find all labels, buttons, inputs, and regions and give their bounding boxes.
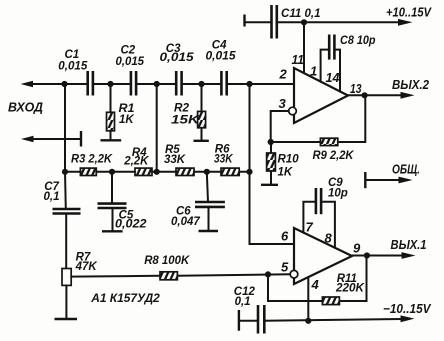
svg-text:−10..15V: −10..15V [383, 302, 432, 316]
capacitor C8 right stub (pin 14) [334, 50, 340, 92]
wire: R7 to R8 to pin 5 [71, 275, 160, 278]
wire: R10 leads [270, 142, 272, 153]
svg-text:ВХОД: ВХОД [8, 101, 43, 115]
wire: R4 to R5 [152, 171, 176, 173]
resistor R5 body [176, 168, 194, 175]
wire: R11 right lead up to output [341, 256, 367, 302]
capacitor C6 end bar [199, 230, 219, 232]
wire: pin 3 to R10 node [271, 111, 289, 142]
svg-text:0,015: 0,015 [58, 61, 88, 73]
capacitor C9 plates [315, 188, 318, 214]
node: junction pin3 / R9 / R10 [268, 139, 274, 145]
terminal bar lower input [80, 131, 82, 147]
svg-text:ВЫХ.1: ВЫХ.1 [391, 238, 427, 252]
wire: C1 to C2 [93, 83, 131, 85]
svg-text:11: 11 [292, 52, 305, 67]
resistor R4 body [135, 168, 152, 175]
capacitor C6 plates [195, 201, 225, 204]
svg-text:13: 13 [350, 81, 362, 96]
arrow -rail [401, 315, 415, 322]
node: junction R3/R4/C5 [109, 169, 115, 175]
svg-text:0,015: 0,015 [116, 56, 145, 68]
capacitor C3 plates [175, 71, 178, 96]
node: input arrow ВХОД [21, 81, 34, 87]
svg-text:0,047: 0,047 [171, 216, 200, 228]
svg-text:0,015: 0,015 [160, 52, 195, 64]
wire: pin 4 down to negative rail [307, 277, 309, 321]
arrow +rail [398, 19, 413, 26]
op-amp U1.1 triangle (bottom) [294, 228, 352, 284]
wire: input to C1 [32, 83, 88, 85]
wire: lower input line [33, 138, 82, 140]
svg-text:5: 5 [281, 260, 289, 275]
node: row junction at column A [62, 169, 68, 175]
node: output junction ВЫХ.1 [364, 252, 370, 258]
resistor R1 lead [110, 84, 112, 112]
wire: pin5 node down to R11 [268, 274, 322, 301]
node: junction R4/R5/column B [154, 169, 160, 175]
wire: C4 to op-amp pin 2 [227, 83, 294, 85]
resistor R10 body [267, 153, 276, 171]
node: junction R5/R6/C6 [204, 169, 210, 175]
svg-text:9: 9 [353, 241, 361, 256]
wire: R5 to R6 [194, 171, 221, 173]
svg-text:C1: C1 [65, 49, 80, 61]
capacitor C5 lower lead [112, 208, 114, 231]
svg-text:1K: 1K [119, 114, 134, 126]
resistor R3 body [80, 168, 96, 175]
svg-text:R8 100K: R8 100K [144, 255, 190, 267]
capacitor C4 plates [220, 71, 223, 96]
wire: column C (C4 node down to R6 node, to pin 6) [250, 84, 295, 244]
capacitor C12 plates [257, 305, 260, 334]
resistor R8 body [160, 272, 177, 280]
capacitor C5 upper lead [111, 172, 113, 204]
svg-text:+10..15V: +10..15V [386, 6, 432, 20]
wire: op-amp 2 output [352, 255, 404, 257]
capacitor C6 lower lead [208, 207, 210, 231]
inverting input circle pin 5 [290, 270, 298, 278]
capacitor C5 end bar [102, 230, 123, 232]
capacitor C8 left stub (pin 1) [321, 50, 329, 82]
wire: pin 11 from +rail to op-amp [303, 22, 305, 74]
svg-text:C2: C2 [121, 45, 136, 57]
node: junction main line / column C [246, 81, 252, 87]
resistor R1 end bar [101, 139, 122, 141]
svg-text:C8 10p: C8 10p [340, 35, 376, 47]
svg-text:0,1: 0,1 [44, 191, 60, 203]
svg-text:2,2K: 2,2K [123, 155, 149, 167]
resistor R2 lower lead [201, 128, 203, 141]
node: junction R6/column C [246, 169, 252, 175]
svg-text:0,022: 0,022 [115, 219, 147, 231]
wire: C3 to C4 [182, 83, 222, 85]
node: junction main line / R1 [107, 81, 113, 87]
resistor R2 body [198, 111, 206, 127]
svg-text:0,1: 0,1 [235, 296, 251, 308]
svg-text:R2: R2 [174, 103, 190, 115]
resistor R9 body [320, 138, 337, 145]
capacitor C5 plates [98, 202, 127, 205]
terminal ОБЩ bar [364, 172, 366, 188]
node: lower input arrow [21, 136, 34, 142]
svg-text:1K: 1K [278, 167, 293, 179]
resistor R2 end bar [194, 140, 209, 142]
svg-text:3: 3 [279, 96, 287, 111]
wire: negative rail [264, 319, 402, 321]
wire: +rail [277, 21, 402, 23]
capacitor C6 upper lead [207, 172, 208, 202]
svg-text:R3 2,2K: R3 2,2K [71, 154, 113, 166]
inverting input circle pin 3 [289, 107, 297, 115]
resistor R2 lead [201, 84, 203, 111]
ground bar under R7 [55, 318, 78, 320]
wire: op-amp 1 output [348, 94, 403, 96]
capacitor C7 plates [53, 208, 81, 211]
wire: +rail left stub terminal bar [243, 15, 245, 27]
capacitor C7 upper lead continues column A [64, 172, 67, 209]
node: output junction ВЫХ.2 [362, 92, 368, 98]
svg-text:8: 8 [325, 231, 333, 246]
wire: C2 to C3 [136, 83, 176, 85]
wire: R7 to ground [65, 285, 67, 318]
svg-text:47K: 47K [75, 261, 98, 273]
svg-text:C11 0,1: C11 0,1 [281, 8, 321, 20]
node: junction pin 4 / negative rail [305, 318, 311, 324]
op-amp U1.2 triangle (top) [294, 68, 348, 123]
wire: R9 right lead up to output [338, 95, 366, 142]
svg-text:2: 2 [279, 67, 288, 82]
resistor R1 lower lead [110, 131, 112, 140]
resistor R1 body [107, 112, 115, 131]
node: junction main line / R2 [198, 81, 204, 87]
svg-text:R10: R10 [278, 153, 300, 165]
ground bar under R10 [261, 184, 278, 186]
svg-text:10p: 10p [328, 188, 348, 200]
svg-text:1: 1 [310, 64, 317, 79]
svg-text:14: 14 [326, 70, 341, 85]
node A: junction input / shield column [61, 81, 67, 87]
svg-text:6: 6 [281, 229, 289, 244]
wire: shield column A vertical [64, 84, 66, 172]
wire: column B (C2/C3 node down to R4/R5 node) [156, 84, 158, 172]
capacitor C1 plates [86, 71, 89, 96]
capacitor C2 plates [130, 71, 133, 96]
svg-text:15K: 15K [171, 115, 200, 127]
svg-text:ВЫХ.2: ВЫХ.2 [392, 78, 429, 92]
svg-text:ОБЩ.: ОБЩ. [392, 163, 420, 177]
resistor R11 body [322, 297, 339, 305]
node: junction +rail / pin 11 [301, 19, 307, 25]
wire: +rail stub to C11 [245, 21, 272, 23]
wire: R9 left lead [271, 141, 321, 143]
svg-text:R9 2,2K: R9 2,2K [313, 150, 355, 162]
svg-text:33K: 33K [164, 154, 186, 166]
wire: C7 to R7 [65, 214, 67, 269]
svg-text:4: 4 [311, 277, 320, 292]
wire: C12 lead [239, 320, 258, 322]
wire: R3 to C5 node [96, 171, 135, 173]
resistor R6 body [221, 168, 239, 175]
svg-text:А1 К157УД2: А1 К157УД2 [90, 293, 160, 305]
wire: ОБЩ line [365, 179, 400, 181]
capacitor C8 plates [328, 35, 331, 60]
wire: R6 to column C [239, 171, 249, 173]
svg-text:0,015: 0,015 [206, 50, 237, 62]
arrow ВЫХ.2 [401, 92, 415, 99]
svg-text:33K: 33K [214, 153, 233, 165]
resistor R7 body (unhatched) [62, 269, 71, 286]
capacitor C9 right stub (pin 8) [321, 202, 335, 248]
wire: row to R3 [65, 171, 80, 173]
svg-text:7: 7 [306, 220, 314, 235]
arrow ОБЩ [399, 177, 413, 184]
capacitor C11 plates [270, 5, 273, 39]
capacitor C12 left terminal bar [238, 310, 240, 331]
node: junction pin 5 / R11 [265, 271, 271, 277]
capacitor C9 left stub (pin 7) [303, 202, 315, 233]
arrow ВЫХ.1 [402, 252, 416, 259]
wire: R8 to pin5 node [177, 274, 290, 276]
svg-text:220K: 220K [335, 283, 365, 295]
node: junction main line / column B [154, 81, 160, 87]
